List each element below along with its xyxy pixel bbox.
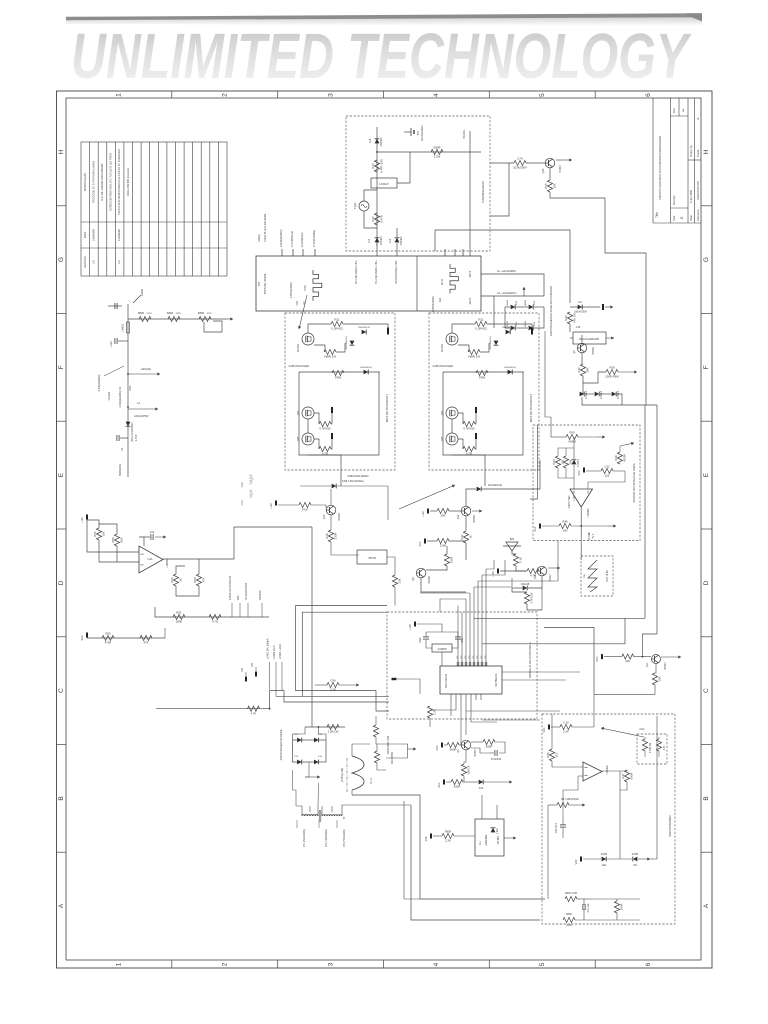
diode C13 1N5402: [395, 236, 403, 246]
svg-text:AMOSTRAGEM DA SAIDA DO INVERSO: AMOSTRAGEM DA SAIDA DO INVERSOR: [549, 286, 553, 336]
svg-text:47K: 47K: [144, 641, 149, 645]
svg-text:680R 1/2W: 680R 1/2W: [565, 892, 578, 895]
resistor lower1 MOS DE POTENCIA 2: [463, 421, 475, 430]
capacitor C17 100nF: [578, 305, 583, 310]
svg-text:BC538: BC538: [428, 576, 431, 584]
capacitor C24: [151, 534, 153, 540]
svg-text:D: D: [703, 580, 710, 585]
svg-text:Q12: Q12: [457, 514, 460, 519]
wire long vertical x312: [311, 527, 313, 727]
svg-text:Q7A: Q7A: [542, 168, 545, 173]
wire d31 net: [512, 587, 522, 589]
svg-text:4.7R/A22: 4.7R/A22: [319, 427, 331, 431]
svg-text:22nF: 22nF: [462, 637, 464, 643]
wire ctrl vcc: [417, 624, 442, 632]
border row labels: [58, 149, 710, 908]
svg-text:4-RD(22AWG) S1: 4-RD(22AWG) S1: [118, 386, 122, 407]
diode D13 1N914: [297, 760, 302, 765]
svg-text:5-CCW(5mm): 5-CCW(5mm): [290, 231, 294, 247]
ic U1 labels: [444, 673, 498, 689]
svg-text:MOS DE POTENCIA 2: MOS DE POTENCIA 2: [529, 393, 533, 422]
svg-text:IRFZ40: IRFZ40: [441, 343, 444, 352]
control box MODULO DE CONTROLE: [387, 612, 537, 719]
wire lvr62 joint: [276, 690, 302, 696]
wire ctrl bottom net: [450, 700, 452, 716]
svg-text:FIL2: FIL2: [640, 728, 645, 731]
svg-text:560R: 560R: [434, 146, 441, 150]
svg-text:30K: 30K: [568, 459, 572, 464]
wire resistor row: [128, 318, 226, 320]
wire q13 collector: [557, 541, 559, 568]
diode D31 1N4148: [523, 586, 528, 591]
transistor Q5 BC337: [461, 740, 471, 750]
svg-text:R55: R55: [105, 632, 111, 636]
wire right vertical 645: [644, 405, 646, 618]
svg-text:C7A: C7A: [517, 157, 523, 161]
wire mid row MOS DE POTENCIA 1: [299, 371, 380, 373]
diode D28 1N914: [595, 391, 603, 399]
svg-text:D10: D10: [479, 787, 484, 790]
wire c16: [397, 679, 420, 694]
resistor lower2 MOS DE POTENCIA 1: [319, 446, 331, 455]
wire plus input: [588, 471, 625, 489]
wire box down MOS DE POTENCIA 2: [484, 455, 486, 486]
resistor R40 39K: [577, 364, 590, 376]
svg-text:A23(1/2): A23(1/2): [141, 367, 151, 371]
capacitor VCC stub mid: [424, 539, 426, 544]
svg-text:1N914: 1N914: [525, 299, 527, 306]
wire bz1: [512, 551, 516, 554]
svg-text:BC639: BC639: [592, 347, 595, 355]
svg-text:RL1: RL1: [479, 840, 482, 845]
svg-text:Q23: Q23: [297, 410, 300, 415]
resistor R72 680R: [563, 917, 575, 922]
arrow neon out: [556, 158, 572, 161]
resistor R33 220K: [437, 538, 449, 547]
wire 12-A2 feed: [481, 296, 494, 328]
svg-text:R51: R51: [176, 611, 182, 615]
labels power taps: [229, 575, 262, 617]
svg-text:C17: C17: [578, 301, 583, 304]
svg-text:C22: C22: [604, 465, 610, 469]
resistor R49 100R: [614, 452, 627, 464]
wire right trunk joint: [645, 404, 647, 405]
title block text: [655, 107, 700, 221]
svg-text:39K: 39K: [585, 367, 589, 372]
wire right trunk upper: [645, 253, 647, 404]
svg-text:9-WH(22AWG): 9-WH(22AWG): [432, 296, 435, 312]
wire minus input: [573, 482, 575, 489]
wire to q13: [500, 570, 527, 572]
resistor R14 560R 2.2W: [431, 146, 443, 159]
resistor R70 2K2: [546, 749, 559, 761]
svg-text:VD9: VD9: [575, 859, 578, 864]
capacitor C18 bar: [602, 304, 604, 310]
wire right trunk lower: [656, 405, 658, 634]
label chave cluster: [97, 366, 151, 407]
mosfet Q lower1 MOS DE POTENCIA 1: [302, 407, 314, 419]
mosfet Q upper MOS DE POTENCIA 1: [302, 333, 314, 345]
svg-text:R28: R28: [325, 533, 329, 539]
label LA9N arrow: [133, 289, 144, 303]
svg-text:1N4148(1/4): 1N4148(1/4): [488, 484, 502, 487]
diode D27 1N914: [580, 391, 588, 399]
svg-text:4.7R/A22: 4.7R/A22: [463, 427, 475, 431]
diode D25 1N914: [529, 305, 534, 310]
svg-text:SA2: SA2: [439, 297, 442, 302]
diode D10: [479, 780, 484, 785]
wire q10 base: [278, 504, 299, 506]
wire c24: [144, 536, 150, 538]
svg-text:4.33: 4.33: [664, 745, 666, 750]
resistor R75 0.33R: [656, 739, 661, 751]
resistor R67 1K: [461, 764, 470, 776]
inductor FIL A: [342, 756, 373, 792]
wire u4 out: [163, 527, 312, 559]
wire R39 row: [583, 372, 606, 383]
arrow r50 out: [597, 435, 605, 438]
resistor R65 560R: [447, 742, 459, 751]
regulator U5 78L05: [357, 550, 387, 564]
svg-text:10K: 10K: [101, 531, 105, 536]
resistor R21B 330R: [373, 725, 378, 737]
resistor R8 680R: [139, 316, 151, 321]
svg-text:R39: R39: [609, 366, 615, 370]
wire sync top: [551, 714, 553, 749]
wire sawtooth feed: [580, 556, 582, 560]
capacitor C23 47nF: [560, 825, 566, 827]
svg-text:CABO(100m)8AWG: CABO(100m)8AWG: [347, 475, 368, 478]
resistor R31 10K: [437, 508, 449, 517]
wire crystal net: [425, 632, 427, 637]
wire rede bus top: [305, 726, 345, 728]
wire right trunk into sync: [656, 716, 658, 859]
svg-text:R54: R54: [193, 577, 197, 583]
capacitor battery: [117, 435, 119, 441]
svg-text:BC547: BC547: [664, 662, 667, 670]
connector TP1 divider: [416, 256, 418, 311]
svg-text:RET2: RET2: [468, 270, 472, 277]
svg-text:47uF: 47uF: [302, 508, 309, 512]
transformer T1: [302, 810, 346, 822]
svg-text:1N5402: 1N5402: [379, 137, 383, 147]
svg-text:RET1: RET1: [468, 297, 472, 304]
sync box SINCRONISMO: [542, 714, 675, 924]
svg-text:A50M: A50M: [568, 440, 576, 444]
wire q12 down: [465, 516, 467, 531]
diode zener MOS DE POTENCIA 1: [350, 341, 355, 346]
op-amp U3C LM339A: [583, 762, 602, 781]
svg-text:5.1K: 5.1K: [518, 557, 522, 563]
svg-text:4.19MHz: 4.19MHz: [437, 648, 447, 651]
wire ic right out b: [502, 679, 566, 681]
svg-text:SENSOR DA TENSAO DE SAIDA: SENSOR DA TENSAO DE SAIDA: [632, 463, 636, 503]
regulator U2 LM317: [371, 178, 397, 188]
wire bridge net: [494, 295, 544, 297]
wire sync vert 620: [619, 784, 621, 859]
svg-text:G: G: [58, 257, 65, 262]
resistor R61 ctrl: [427, 706, 436, 718]
arrow FIL5: [298, 295, 307, 329]
svg-text:61.2: 61.2: [593, 533, 595, 538]
capacitor VCC row: [548, 725, 550, 730]
svg-text:C24: C24: [150, 531, 155, 534]
resistor R73 100R: [614, 901, 623, 913]
border column labels: [116, 93, 652, 967]
svg-text:A68R 1W: A68R 1W: [468, 355, 480, 359]
node bottom row: [580, 525, 582, 527]
svg-text:12V: 12V: [251, 662, 254, 667]
resistor R52 4.7K: [209, 614, 221, 623]
border column ticks top: [172, 91, 595, 968]
capacitor VD bar sync: [580, 857, 582, 862]
wire diode row: [585, 393, 594, 395]
svg-text:PF3 PT(22AWG): PF3 PT(22AWG): [343, 829, 346, 847]
transistor Q13 BC547: [537, 566, 547, 576]
wire ic right out a: [502, 671, 580, 673]
svg-text:0.47R 10W: 0.47R 10W: [379, 159, 383, 173]
arrow bridge out: [522, 287, 525, 296]
resistor gate upper MOS DE POTENCIA 1: [331, 318, 343, 331]
svg-text:4: 4: [433, 962, 440, 966]
svg-text:Number: Number: [672, 195, 676, 205]
svg-text:PC AMAZONAS: PC AMAZONAS: [245, 582, 248, 600]
svg-text:1K: 1K: [178, 578, 182, 582]
svg-text:REB: REB: [445, 830, 451, 834]
wire staircase line 1: [296, 606, 389, 712]
svg-text:R46: R46: [562, 520, 568, 524]
svg-text:789 RPL: 789 RPL: [498, 835, 500, 845]
arrow C17 out: [605, 305, 613, 308]
connector TP1 top pins: [282, 249, 315, 256]
svg-text:R15: R15: [544, 183, 548, 189]
svg-text:VCC: VCC: [596, 656, 599, 661]
trimmer P1 regular: [573, 332, 606, 344]
svg-text:CHAVE: CHAVE: [107, 391, 111, 400]
svg-text:10K: 10K: [625, 659, 630, 663]
capacitor C15 22nF: [455, 637, 461, 639]
svg-text:RD-1/6(12AWG) CB1+: RD-1/6(12AWG) CB1+: [355, 259, 358, 284]
wire row 617: [155, 607, 269, 617]
svg-text:680R: 680R: [138, 311, 144, 315]
svg-text:T1(A): T1(A): [353, 203, 357, 210]
wire signal bundle verticals: [458, 569, 486, 660]
wire opamp apex down: [580, 507, 582, 556]
connector TP1 body: [256, 256, 481, 311]
svg-text:1N4749(15V): 1N4749(15V): [490, 336, 492, 349]
waveform FIL B: [450, 264, 458, 293]
svg-text:ETAPA DE POTENCIA: ETAPA DE POTENCIA: [229, 575, 232, 600]
mosfet Q lower2 MOS DE POTENCIA 2: [446, 433, 458, 445]
svg-text:A68R 1W: A68R 1W: [324, 355, 336, 359]
svg-text:0.5T 15.8V: 0.5T 15.8V: [606, 570, 609, 582]
diode D26 1N914: [572, 459, 580, 467]
resistor R68 560R: [451, 779, 463, 788]
relay RL1: [475, 819, 504, 856]
wire r47: [619, 771, 621, 784]
border row ticks: [57, 206, 713, 852]
diode D30 1N4148: [477, 487, 482, 492]
svg-text:R56: R56: [93, 531, 97, 537]
svg-text:A: A: [703, 903, 710, 908]
resistor R74 0.33R: [642, 739, 647, 751]
wire q10 top: [330, 489, 332, 505]
labels TP1 pin wires: [257, 213, 316, 247]
wire t1 pins: [296, 806, 302, 816]
wire diode out row: [617, 394, 622, 405]
arrow cross reference: [399, 485, 455, 509]
diode D14 1N914: [314, 760, 319, 765]
svg-text:BAT+DC(24AWG): BAT+DC(24AWG): [131, 422, 134, 441]
svg-text:BAT–: BAT–: [237, 594, 240, 600]
wire relay top: [481, 795, 483, 819]
svg-text:0.33R 3W: 0.33R 3W: [650, 742, 652, 753]
node rede: [318, 726, 320, 728]
wire C13 link: [396, 228, 398, 237]
capacitor VCC q5: [441, 743, 443, 748]
arrow R39 out: [618, 370, 637, 373]
transistor Q11 BC547: [652, 655, 661, 664]
wire r33: [427, 540, 437, 542]
svg-text:100R: 100R: [619, 904, 623, 911]
resistor R28 330R: [325, 530, 338, 542]
wire bundle fanout: [420, 560, 558, 612]
wire vert 594: [593, 694, 595, 727]
ic U1 bottom pins: [451, 694, 481, 700]
resistor R38 5.1K: [513, 554, 522, 566]
wire 560 row: [446, 781, 451, 783]
resistor R53 1K: [170, 574, 183, 586]
resistor R20 2.2K 1W: [327, 724, 339, 733]
svg-text:Q11: Q11: [646, 662, 649, 667]
svg-text:BC337: BC337: [474, 749, 477, 757]
svg-text:0.1R/A22: 0.1R/A22: [475, 327, 487, 331]
wire battery rail: [127, 304, 129, 477]
svg-text:R50: R50: [569, 431, 575, 435]
resistor R12: [371, 213, 384, 225]
svg-text:4.7K: 4.7K: [251, 711, 257, 715]
svg-text:A: A: [58, 903, 65, 908]
resistor R55 470K: [102, 632, 114, 645]
svg-text:103K/250V: 103K/250V: [513, 166, 527, 170]
crystal Y1: [432, 644, 452, 652]
svg-text:F: F: [703, 365, 710, 369]
svg-text:E: E: [703, 472, 710, 477]
svg-text:MODULO DE CONTROLE: MODULO DE CONTROLE: [528, 642, 532, 678]
svg-text:4.7K/2W: 4.7K/2W: [529, 592, 533, 603]
arrow bottom row out: [608, 524, 616, 527]
svg-text:12—A2(22AWG): 12—A2(22AWG): [497, 291, 516, 295]
svg-text:6-A23(5mm): 6-A23(5mm): [300, 232, 304, 247]
oscillator box: [581, 556, 613, 596]
svg-text:C13: C13: [389, 238, 392, 243]
diode D21 1N914: [633, 857, 638, 862]
wire charger top node: [377, 151, 481, 153]
resistor R32 1K: [460, 531, 473, 543]
capacitor clamp MOS DE POTENCIA 1: [387, 328, 389, 335]
svg-text:1N4148: 1N4148: [521, 583, 530, 586]
wire mos upper MOS DE POTENCIA 1: [308, 324, 331, 333]
svg-text:6: 6: [645, 93, 652, 97]
svg-text:2.2K: 2.2K: [563, 730, 569, 734]
arrow cross ref right: [601, 727, 644, 737]
wire r21 net: [375, 716, 377, 725]
resistor R17 A68: [557, 802, 569, 807]
revision table grid: [81, 142, 227, 276]
wire r17 row: [548, 804, 557, 806]
svg-text:Drawn by: Drawn by: [689, 145, 693, 157]
svg-text:12V: 12V: [241, 667, 244, 672]
diode D20 LED: [602, 857, 607, 862]
resistor R29 33K: [392, 575, 401, 587]
arrow c24: [155, 535, 166, 538]
svg-text:F: F: [58, 365, 65, 369]
wire box down MOS DE POTENCIA 1: [340, 455, 342, 486]
wire sync opamp out: [602, 770, 620, 772]
svg-text:BC639: BC639: [338, 513, 341, 521]
wire sensor feed: [545, 417, 551, 437]
wire q11 emitter: [655, 664, 656, 673]
wire staircase line 2: [302, 612, 389, 696]
connector TP1 right pins: [445, 249, 463, 256]
svg-text:ACRESCENTADO R16, R17 NO Q.5 E: ACRESCENTADO R16, R17 NO Q.5 E Q.6 TIPAS: [109, 153, 113, 211]
label JP CMP: [589, 531, 595, 540]
capacitor VD relay: [430, 834, 432, 839]
svg-text:LM339A: LM339A: [606, 765, 609, 774]
svg-text:UNLIMITED TECHNOLOGY: UNLIMITED TECHNOLOGY: [71, 20, 692, 92]
resistor R66 560R: [483, 739, 495, 748]
resistor R39 100R: [605, 366, 619, 379]
svg-text:Filename: Filename: [696, 209, 700, 221]
svg-text:2: 2: [221, 962, 228, 966]
capacitor +12V stub a: [245, 677, 247, 682]
node arrow battery row: [226, 317, 233, 320]
svg-text:VCC: VCC: [578, 470, 581, 475]
svg-text:H: H: [703, 149, 710, 154]
svg-text:0.1R/A22: 0.1R/A22: [331, 327, 343, 331]
resistor R69 2.2K REB: [442, 830, 454, 843]
arrow q12 out: [472, 509, 482, 512]
svg-text:P1/5N: P1/5N: [632, 854, 639, 856]
svg-text:BK-8/7(22AWG) CB3-: BK-8/7(22AWG) CB3-: [395, 260, 398, 283]
diode D16 relay: [491, 828, 499, 834]
svg-text:D: D: [58, 580, 65, 585]
svg-text:FIL A: FIL A: [370, 778, 373, 784]
svg-text:2.2K: 2.2K: [445, 839, 451, 843]
diode D24 1N914: [529, 326, 534, 331]
resistor R62 10K: [622, 654, 634, 663]
svg-text:CARREGADOR: CARREGADOR: [481, 180, 485, 202]
svg-text:TDA7SEC11: TDA7SEC11: [444, 673, 448, 688]
capacitor C16 bar: [392, 678, 397, 680]
node q11 base: [642, 656, 644, 658]
resistor source upper MOS DE POTENCIA 1: [324, 349, 336, 358]
svg-text:10K: 10K: [563, 529, 568, 533]
lamp T1A: [353, 201, 369, 211]
svg-text:Title: Title: [655, 212, 659, 218]
wire q10 down: [330, 515, 332, 530]
wire r60: [315, 684, 327, 686]
svg-text:LA9N: LA9N: [140, 289, 144, 296]
wire neon down path: [549, 168, 551, 180]
svg-text:5: 5: [539, 962, 546, 966]
diode D15 1N5402: [375, 137, 383, 147]
svg-text:1: 1: [116, 962, 123, 966]
resistor R13 0.47R 10W: [371, 159, 384, 173]
capacitor +12V stub: [109, 341, 128, 347]
wire 78l05 out: [387, 557, 395, 575]
svg-text:680R: 680R: [198, 311, 204, 315]
